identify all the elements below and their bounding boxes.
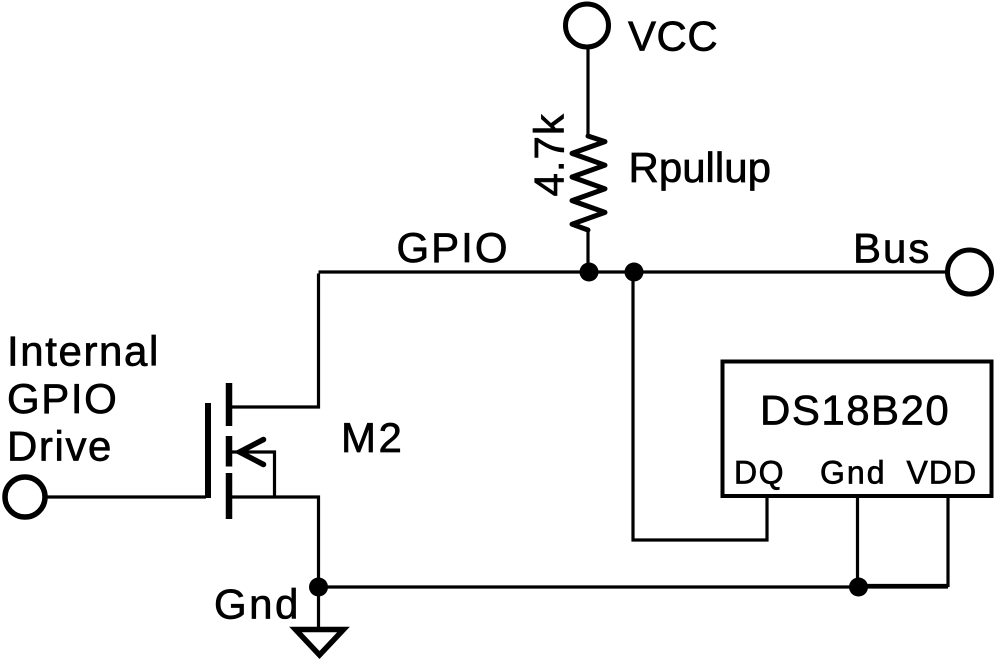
- svg-text:Gnd: Gnd: [820, 455, 886, 491]
- svg-text:VDD: VDD: [907, 455, 978, 491]
- wire resistor to bus node: [586, 229, 589, 272]
- svg-text:Bus: Bus: [853, 225, 931, 272]
- svg-text:4.7k: 4.7k: [526, 113, 573, 196]
- wire M2 drain to bus: [231, 274, 319, 408]
- svg-text:Drive: Drive: [7, 423, 113, 470]
- terminal VCC: [566, 4, 609, 47]
- svg-text:DS18B20: DS18B20: [760, 387, 950, 434]
- svg-text:VCC: VCC: [628, 13, 718, 60]
- label Bus: [853, 225, 931, 272]
- svg-text:DQ: DQ: [734, 455, 785, 491]
- wire M2 body to source: [232, 452, 275, 496]
- label Internal GPIO Drive: [7, 328, 160, 470]
- junction node gnd/VDD: [849, 578, 868, 597]
- wire GPIO bus horizontal: [319, 270, 948, 273]
- svg-text:GPIO: GPIO: [7, 375, 118, 422]
- label VCC: [628, 13, 718, 60]
- value label 4.7k: [526, 113, 573, 196]
- junction node bus/DQ: [625, 263, 644, 282]
- wire M2 source to ground node: [232, 497, 319, 587]
- terminal Bus: [948, 250, 992, 294]
- label Gnd: [214, 581, 301, 628]
- wire gate to terminal: [46, 495, 206, 498]
- pin label VDD: [907, 455, 978, 491]
- transistor M2 body arrow: [240, 440, 264, 465]
- terminal Internal GPIO Drive: [5, 477, 45, 517]
- svg-text:Gnd: Gnd: [214, 581, 301, 628]
- label Rpullup: [629, 144, 771, 191]
- junction node ground: [309, 578, 328, 597]
- pin label Gnd: [820, 455, 886, 491]
- svg-text:M2: M2: [341, 414, 404, 461]
- wire ground bus horizontal: [319, 585, 949, 588]
- svg-text:Rpullup: Rpullup: [629, 144, 771, 191]
- wire VDD pin: [858, 497, 948, 586]
- label GPIO: [397, 224, 510, 271]
- wire DQ pin to bus node: [633, 273, 767, 540]
- wire VCC to resistor: [586, 47, 589, 137]
- pin label DQ: [734, 455, 785, 491]
- label M2: [341, 414, 404, 461]
- resistor Rpullup: [572, 136, 605, 230]
- ground symbol: [296, 587, 344, 655]
- transistor M2 channel bar: [226, 383, 233, 519]
- label DS18B20: [760, 387, 950, 434]
- junction node resistor/bus: [580, 263, 599, 282]
- svg-text:Internal: Internal: [7, 328, 160, 375]
- IC DS18B20 box: [723, 362, 992, 497]
- wire Gnd pin: [856, 497, 859, 587]
- transistor M2 gate bar: [205, 403, 211, 498]
- svg-text:GPIO: GPIO: [397, 224, 510, 271]
